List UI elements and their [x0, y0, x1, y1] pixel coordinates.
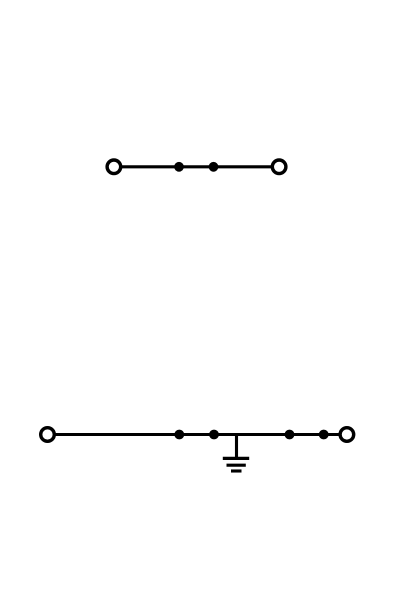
lower deck right terminal	[340, 428, 354, 442]
upper deck right terminal	[272, 160, 286, 174]
upper deck wire	[114, 165, 279, 168]
upper deck junction node 1	[174, 162, 184, 172]
upper deck junction node 2	[209, 162, 219, 172]
lower deck junction node 3	[285, 430, 295, 440]
ground stub wire	[235, 435, 238, 459]
lower deck junction node 2	[209, 430, 219, 440]
lower deck wire	[48, 433, 347, 436]
upper deck left terminal	[107, 160, 121, 174]
lower deck junction node 1	[174, 430, 184, 440]
lower deck left terminal	[41, 428, 55, 442]
lower deck junction node 4	[319, 430, 329, 440]
ground symbol	[223, 458, 249, 471]
